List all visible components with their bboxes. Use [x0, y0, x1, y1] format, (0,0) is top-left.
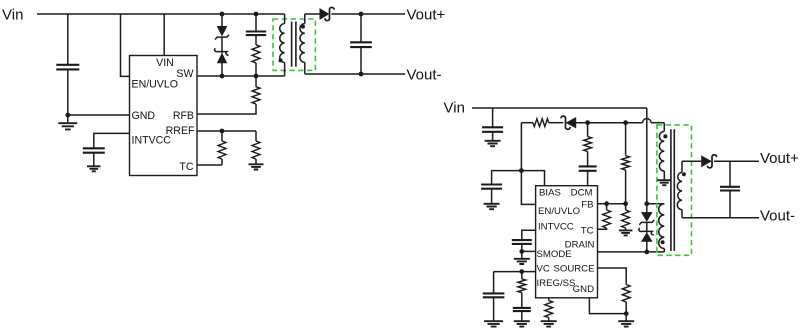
wire D2 bar to triangle [221, 52, 223, 54]
wire D7 to Vout+ [714, 160, 759, 162]
wire snubber cap to R1 [255, 35, 257, 45]
wire output cap top stem [360, 14, 362, 42]
ground below C9 [484, 321, 503, 326]
wire SW rail [197, 75, 285, 77]
wire GND pin to C1 node [68, 114, 130, 116]
diode D4 schottky bar [561, 116, 570, 129]
node T1 secondary phase dot [301, 25, 305, 29]
capacitor C11 output [720, 187, 740, 191]
resistor R4 to ground [252, 141, 260, 159]
svg-text:Vout-: Vout- [760, 208, 795, 225]
diode D6 schottky triangle [642, 233, 653, 242]
ground below C1 [58, 123, 77, 129]
ground below R11 [541, 321, 557, 326]
wire bias line left segment [521, 122, 533, 124]
ground below C10 [514, 321, 530, 326]
capacitor C7 DCM [579, 166, 597, 170]
capacitor C6 EN bypass [481, 185, 502, 189]
wire D3 to Vout+ [332, 13, 406, 15]
wire VC node to R10 [521, 272, 523, 279]
svg-text:GND: GND [573, 284, 594, 295]
wire SOURCE pin [598, 268, 627, 285]
inductor T1 secondary winding [300, 24, 305, 63]
wire C6 to ground [491, 189, 493, 203]
wire C9 to ground [493, 298, 495, 321]
diode D7 schottky bar [707, 155, 716, 168]
resistor R5 bias [533, 119, 549, 127]
wire VC line [494, 271, 536, 273]
svg-text:VIN: VIN [156, 57, 174, 69]
node RREF junction [220, 129, 225, 134]
capacitor C10 VC filter [513, 308, 531, 311]
svg-text:Vin: Vin [2, 7, 23, 24]
wire T2 secondary top stem [681, 161, 683, 172]
wire T2 core [671, 129, 674, 251]
svg-text:Vout+: Vout+ [760, 150, 799, 167]
wire ground stem below C1 node [67, 115, 69, 122]
diode D5 zener clamp triangle [642, 212, 653, 221]
wire C1 to GND node [67, 70, 69, 115]
wire DRAIN rail [598, 251, 665, 253]
wire Vout- rail (c2) [682, 217, 759, 219]
resistor R1 snubber [252, 45, 260, 63]
wire FB pin line [598, 203, 626, 205]
svg-text:TC: TC [581, 226, 594, 237]
wire INTVCC to C8 [522, 230, 536, 240]
wire VC line to C9 [493, 272, 495, 294]
node DCM branch junction [585, 120, 590, 125]
resistor R11 IREG/SS [545, 301, 553, 318]
wire R2 top to SW rail [255, 76, 257, 87]
wire D4 to DCM node [576, 122, 643, 124]
capacitor C2 INTVCC bypass [83, 148, 105, 152]
resistor R3 reference [218, 141, 226, 159]
wire C8 to SMODE node [521, 244, 523, 251]
wire snubber cap top [255, 14, 257, 31]
svg-text:RFB: RFB [173, 110, 194, 122]
capacitor C3 snubber [246, 32, 266, 36]
wire INTVCC to C2 [94, 133, 130, 148]
capacitor C1 input bypass [56, 65, 79, 70]
svg-text:SOURCE: SOURCE [553, 264, 594, 275]
wire hop over clamp vertical [643, 118, 651, 122]
svg-text:Vin: Vin [444, 100, 465, 117]
wire D6 bar to triangle [646, 231, 648, 232]
wire R5 to D4 [549, 122, 564, 124]
ground below R9 [619, 230, 633, 235]
op-amp U2 (flyback controller IC, right) [536, 186, 598, 298]
wire between D5 and D6 [646, 222, 648, 231]
wire R11 to ground [548, 318, 550, 321]
svg-text:IREG/SS: IREG/SS [537, 278, 576, 289]
inductor T1 primary winding [280, 24, 285, 63]
wire T1 secondary to D3 [305, 13, 320, 15]
wire R6 to C7 [587, 151, 589, 166]
inductor T2 bias winding [659, 131, 664, 171]
wire RFB pin [197, 104, 256, 114]
wire rail cap branch [492, 108, 494, 127]
svg-text:DCM: DCM [571, 188, 593, 199]
wire DCM branch to R6 [587, 123, 589, 137]
diode D1 zener bar [215, 35, 229, 40]
diode D1 zener clamp triangle [217, 26, 227, 36]
ground below bottom rail [618, 321, 634, 326]
wire RREF node to R3 [221, 131, 223, 141]
wire R8 to TC pin [598, 228, 607, 229]
diode D4 schottky triangle [566, 118, 576, 128]
wire input cap branch [67, 14, 69, 65]
resistor R7 FB upper [622, 156, 630, 170]
transformer T2 shield box [657, 125, 692, 255]
wire R1 to SW rail [255, 63, 257, 76]
node T2 bias phase dot [663, 134, 667, 138]
node T2 secondary phase dot [682, 172, 686, 176]
wire VIN pin stub [163, 14, 165, 56]
wire SMODE node ground stem [521, 251, 523, 258]
wire RREF pin [197, 130, 256, 132]
ground below C6 [484, 204, 500, 209]
node snubber at SW rail [254, 74, 259, 79]
wire EN/BIAS vertical [520, 123, 522, 171]
svg-text:INTVCC: INTVCC [538, 222, 574, 233]
svg-text:Vout-: Vout- [407, 67, 442, 84]
node VC junction [519, 269, 524, 274]
wire SMODE pin [522, 250, 536, 252]
wire FB divider upper [625, 123, 627, 156]
wire bias line to T2 [651, 122, 664, 124]
svg-text:EN/UVLO: EN/UVLO [538, 206, 580, 217]
wire T1 primary top stem [284, 14, 286, 24]
node SMODE/ground junction [519, 249, 524, 254]
wire T2 primary bottom stem [663, 249, 665, 252]
wire R3 to TC line [221, 159, 223, 165]
svg-text:EN/UVLO: EN/UVLO [132, 79, 179, 91]
node DRAIN junction [644, 250, 649, 255]
op-amp U1 (flyback controller IC, left) [130, 56, 198, 176]
node snubber at top rail [254, 12, 259, 17]
wire primary top [647, 203, 665, 205]
wire T1 secondary bottom stem [304, 62, 306, 74]
wire RREF to R4 [255, 131, 257, 141]
wire output cap top stem (c2) [729, 161, 731, 186]
svg-text:SMODE: SMODE [537, 249, 572, 260]
node clamp top junction [644, 201, 649, 206]
svg-text:BIAS: BIAS [539, 188, 561, 199]
ground below C2 [87, 166, 101, 171]
wire zener branch bottom [221, 63, 223, 76]
wire Vin top rail [37, 13, 285, 15]
wire IREG/SS stub [548, 298, 550, 301]
svg-text:VC: VC [537, 264, 550, 275]
wire EN/UVLO to top rail [121, 14, 130, 76]
wire C7 to DCM stub [587, 171, 589, 186]
node zener at top rail [220, 12, 225, 17]
node FB junction R8 [604, 201, 609, 206]
diode D7 output schottky triangle [702, 156, 712, 167]
capacitor C8 INTVCC [512, 240, 532, 244]
wire bottom rail ground stem [625, 314, 627, 321]
wire T2 secondary to D7 [682, 160, 701, 162]
capacitor C5 input bypass [482, 127, 503, 132]
diode D3 schottky bar [325, 7, 334, 20]
wire EN node to BIAS stub [521, 171, 544, 186]
node FB junction divider [623, 201, 628, 206]
node T1 primary phase dot [279, 58, 283, 62]
capacitor C9 VC [483, 293, 505, 297]
diode D2 schottky triangle [217, 53, 227, 63]
inductor T2 secondary winding [677, 172, 682, 209]
node bottom rail junction [624, 311, 629, 316]
node zener at SW rail [220, 74, 225, 79]
wire output cap bottom stem (c2) [729, 191, 731, 218]
resistor R6 DCM [584, 137, 592, 152]
capacitor C4 output [350, 42, 372, 47]
wire R12 to bottom rail [625, 302, 627, 314]
diode D5 zener bar [639, 220, 654, 225]
wire D6 to DRAIN rail [646, 242, 648, 252]
wire T2 bias top stem [663, 123, 665, 132]
wire divider lower to R9 [625, 204, 627, 210]
node output cap bottom [359, 72, 364, 77]
svg-text:Vout+: Vout+ [407, 7, 446, 24]
ground below C5 [485, 141, 501, 146]
wire TC pin [197, 164, 222, 166]
resistor R12 source sense [622, 285, 630, 303]
diode D3 output schottky triangle [320, 9, 329, 20]
wire R9 to ground [625, 228, 627, 230]
svg-text:GND: GND [132, 110, 156, 122]
wire R10 to C10 [521, 293, 523, 308]
wire EN node to EN/UVLO pin [521, 171, 535, 205]
ground below SMODE node [514, 259, 530, 264]
wire clamp vertical from rail [646, 108, 648, 212]
wire between clamp diodes [221, 37, 223, 52]
diode D6 schottky bar [639, 228, 654, 235]
wire EN node to C6 [492, 171, 522, 185]
node T2 primary phase dot [661, 240, 665, 244]
wire R7 to FB line [625, 170, 627, 204]
ground below bias winding [657, 180, 671, 185]
ground below R4 [249, 164, 264, 169]
wire T1 primary bottom stem [284, 62, 286, 76]
node FB divider top junction [623, 120, 628, 125]
resistor R9 FB lower [622, 210, 630, 228]
transformer T1 shield box [273, 19, 315, 70]
resistor R8 FB-TC [603, 210, 611, 228]
wire C2 to ground [93, 153, 95, 166]
node output cap top [359, 12, 364, 17]
svg-text:FB: FB [581, 200, 593, 211]
wire zener branch top [221, 14, 223, 26]
wire Vin top rail (c2) [472, 107, 647, 109]
svg-text:SW: SW [176, 68, 193, 80]
wire GND pin to bottom rail [589, 298, 626, 314]
wire T2 secondary bottom stem [681, 210, 683, 218]
wire output cap bottom stem [360, 47, 362, 74]
wire Vout- rail [305, 73, 405, 75]
wire T2 bias bottom stem [663, 171, 665, 180]
svg-text:TC: TC [179, 161, 193, 173]
wire C5 to ground [492, 132, 494, 140]
wire T1 secondary top stem [304, 14, 306, 24]
wire FB node to R8 [606, 204, 608, 210]
node GND junction at C1 [65, 113, 70, 118]
wire C10 to ground [521, 311, 523, 320]
resistor R2 feedback [252, 87, 260, 104]
node EN/BIAS junction [519, 168, 524, 173]
inductor T2 primary winding [659, 204, 665, 249]
svg-text:RREF: RREF [166, 125, 195, 137]
diode D2 schottky bar [215, 48, 229, 55]
resistor R10 VC [518, 279, 526, 293]
wire R4 to ground [255, 159, 257, 164]
wire T1 core [292, 22, 296, 67]
